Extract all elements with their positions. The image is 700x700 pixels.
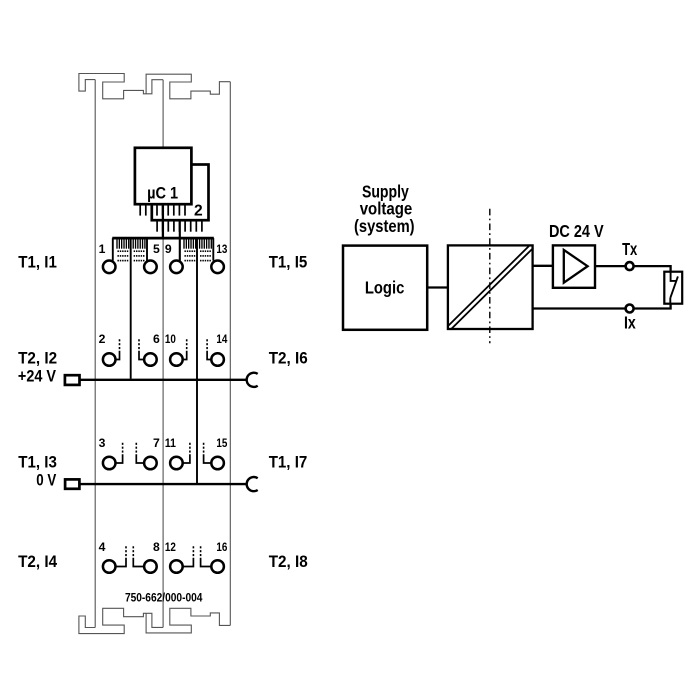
pin 16 connection point	[211, 560, 224, 573]
switch contact at pin 12	[183, 558, 194, 567]
microcontroller U2 (block 2, behind)	[152, 165, 209, 221]
svg-text:(system): (system)	[354, 216, 415, 236]
potential fork 0V (arc)	[247, 477, 258, 491]
svg-text:15: 15	[216, 436, 227, 450]
galvanic isolation dash-dot line	[489, 209, 491, 343]
svg-text:T2, I2: T2, I2	[18, 348, 57, 367]
pin 12 connection point	[170, 560, 183, 573]
pin 6 connection point	[144, 353, 157, 366]
switch contact at pin 7	[136, 454, 144, 463]
terminal lug +24V	[65, 375, 80, 385]
pin 11 connection point	[170, 457, 183, 470]
U1 pin stubs	[140, 204, 185, 215]
wire +24V rail	[80, 379, 247, 381]
svg-text:T1, I5: T1, I5	[269, 252, 308, 271]
bottom DIN-rail latch profile, unit 2	[146, 608, 230, 633]
switch contact at pin 2	[116, 351, 120, 360]
svg-text:T2, I4: T2, I4	[18, 552, 58, 571]
svg-text:0 V: 0 V	[36, 470, 56, 489]
svg-text:T1, I1: T1, I1	[18, 252, 57, 271]
driver amplifier triangle	[564, 250, 588, 283]
svg-text:9: 9	[165, 242, 172, 256]
top DIN-rail latch profile, unit 2	[146, 74, 230, 99]
svg-text:Tx: Tx	[622, 239, 638, 259]
svg-text:+24 V: +24 V	[18, 366, 56, 385]
svg-text:Ix: Ix	[624, 312, 636, 332]
pin 4 connection point	[103, 560, 116, 573]
switch contact at pin 4	[116, 558, 127, 567]
internal bus bar	[112, 237, 214, 240]
svg-text:14: 14	[216, 332, 227, 346]
switch contact at pin 6	[139, 351, 144, 360]
svg-text:2: 2	[99, 332, 106, 346]
svg-text:2: 2	[194, 203, 203, 220]
wire bus bar to pin 13	[212, 238, 214, 261]
pin 10 connection point	[170, 353, 183, 366]
switch contact at pin 8	[133, 558, 144, 567]
potential fork +24V (arc)	[247, 373, 258, 387]
pin 3 connection point	[103, 457, 116, 470]
svg-text:8: 8	[153, 540, 160, 554]
svg-text:T2, I6: T2, I6	[269, 348, 308, 367]
wire DC/DC to terminal Ix	[533, 307, 626, 309]
wire U2 to pin 9 drop	[179, 220, 181, 260]
svg-text:16: 16	[216, 540, 227, 554]
bus comb hatching group A	[117, 239, 211, 248]
DC/DC converter diagonal double line	[448, 245, 534, 330]
bottom DIN-rail latch profile, unit 1	[79, 608, 163, 633]
module left wall	[94, 80, 96, 628]
svg-text:7: 7	[153, 436, 160, 450]
terminal Ix	[626, 305, 634, 313]
svg-text:1: 1	[99, 242, 106, 256]
svg-text:Logic: Logic	[365, 277, 405, 297]
switch contact at pin 14	[207, 351, 211, 360]
switch contact at pin 15	[204, 454, 212, 463]
wire U1 to bus bar	[162, 204, 164, 239]
svg-text:DC 24 V: DC 24 V	[549, 221, 604, 241]
svg-text:750-662/000-004: 750-662/000-004	[125, 591, 203, 605]
switch contact at pin 16	[201, 558, 212, 567]
microcontroller U1 (block µC 1)	[135, 148, 192, 204]
svg-text:T1, I7: T1, I7	[269, 452, 308, 471]
label Supply voltage (system)	[354, 182, 415, 236]
load / sensor element box	[664, 272, 682, 304]
svg-text:T2, I8: T2, I8	[269, 552, 308, 571]
svg-text:11: 11	[165, 436, 176, 450]
load element internal contact symbol	[670, 272, 678, 304]
svg-text:T1, I3: T1, I3	[18, 452, 57, 471]
U2 pin stubs	[157, 220, 202, 231]
wire driver to terminal Tx	[595, 265, 626, 267]
terminal Tx	[626, 262, 634, 270]
bus comb dot matrix	[117, 250, 210, 261]
switch contact at pin 3	[116, 454, 123, 463]
pin 14 connection point	[211, 353, 224, 366]
pin 2 connection point	[103, 353, 116, 366]
svg-text:4: 4	[99, 540, 106, 554]
pin 1 connection point	[103, 261, 116, 274]
wire terminal Tx to load	[633, 266, 670, 272]
wire DC/DC to output driver	[533, 265, 553, 267]
pin 8 connection point	[144, 560, 157, 573]
top DIN-rail latch profile, unit 1	[79, 74, 163, 99]
pin 13 connection point	[211, 261, 224, 274]
svg-text:3: 3	[99, 436, 106, 450]
pin 15 connection point	[211, 457, 224, 470]
module centre separator wall	[162, 80, 164, 628]
svg-text:6: 6	[153, 332, 160, 346]
wire 0V rail	[79, 483, 247, 485]
wire terminal Ix to load	[633, 304, 670, 309]
terminal lug 0V	[65, 479, 79, 488]
block output driver	[553, 245, 595, 287]
wire bus bar to pin 5	[146, 238, 148, 261]
wire bus bar to +24V rail	[130, 239, 132, 379]
svg-text:12: 12	[165, 540, 176, 554]
wire Logic to DC/DC converter	[427, 286, 448, 288]
wire bus bar to 0V rail	[196, 239, 198, 483]
svg-text:µC 1: µC 1	[147, 185, 178, 203]
pin 5 connection point	[144, 261, 157, 274]
module right wall	[229, 82, 231, 626]
svg-text:5: 5	[153, 242, 160, 256]
pin 9 connection point	[170, 261, 183, 274]
block Logic	[343, 246, 427, 330]
svg-text:10: 10	[165, 332, 176, 346]
switch contact at pin 10	[183, 351, 187, 360]
svg-text:13: 13	[216, 242, 227, 256]
block DC/DC converter	[448, 245, 533, 329]
pin 7 connection point	[144, 457, 157, 470]
switch contact at pin 11	[183, 454, 190, 463]
wire bus bar to pin 1	[112, 238, 114, 261]
